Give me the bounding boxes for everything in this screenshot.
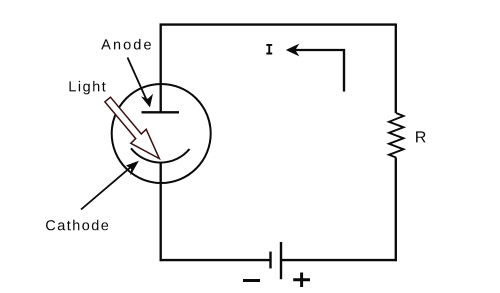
label Light xyxy=(70,81,106,95)
cathode pointer arrowhead xyxy=(127,162,138,175)
cathode arc xyxy=(131,148,190,162)
current arrowhead xyxy=(287,45,298,55)
battery negative plate xyxy=(269,252,271,269)
phototube envelope circle xyxy=(112,84,211,183)
label plus xyxy=(293,273,310,288)
wire left lower (cathode lead) xyxy=(160,163,162,262)
light block arrow xyxy=(105,97,159,158)
anode pointer arrowhead xyxy=(142,95,152,107)
wire left upper (anode lead) xyxy=(160,24,162,112)
label Cathode xyxy=(46,220,108,231)
wire right lower xyxy=(395,158,397,262)
anode plate xyxy=(142,111,180,113)
label Anode xyxy=(101,39,151,50)
wire top xyxy=(160,23,396,25)
cathode pointer line xyxy=(81,167,132,210)
wire bottom left xyxy=(160,259,271,261)
label R xyxy=(416,131,426,142)
wire right upper xyxy=(395,24,397,114)
resistor R xyxy=(389,113,404,158)
label minus xyxy=(243,279,260,282)
battery positive plate xyxy=(280,242,282,279)
label I xyxy=(266,44,272,54)
anode pointer line xyxy=(128,58,147,100)
wire bottom right xyxy=(281,259,397,261)
current arrow I wire xyxy=(290,50,344,92)
